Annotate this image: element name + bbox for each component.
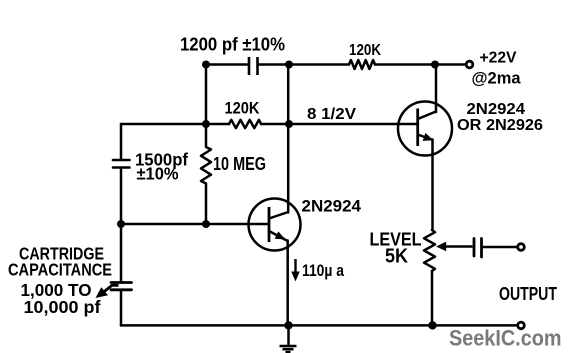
junction node C left (121,224) bbox=[117, 220, 125, 228]
svg-text:OR 2N2926: OR 2N2926 bbox=[457, 117, 543, 134]
svg-text:2N2924: 2N2924 bbox=[467, 101, 526, 118]
svg-text:10 MEG: 10 MEG bbox=[213, 153, 266, 174]
wire ground bus bottom bbox=[121, 324, 517, 327]
svg-text:5K: 5K bbox=[385, 245, 408, 268]
capacitor cartridge plates bbox=[111, 283, 132, 290]
wire Q2 emitter vertical bbox=[431, 140, 434, 231]
svg-text:2N2924: 2N2924 bbox=[302, 198, 362, 216]
svg-text:8 1/2V: 8 1/2V bbox=[307, 106, 356, 123]
pot wiper arrow bbox=[436, 242, 473, 252]
wire coupling cap to output terminal bbox=[482, 246, 518, 249]
terminal output bottom open circle bbox=[518, 322, 525, 329]
wire pot bottom to ground bus bbox=[431, 271, 434, 325]
potentiometer LEVEL 5K element bbox=[424, 230, 435, 271]
svg-text:110µ a: 110µ a bbox=[302, 261, 344, 280]
wire 1500pf to node C bbox=[120, 169, 123, 225]
resistor 10 MEG (vertical) bbox=[201, 124, 211, 224]
terminal +22V open circle bbox=[466, 61, 473, 68]
svg-text:120K: 120K bbox=[225, 100, 260, 118]
wire Q2 collector vertical bbox=[435, 65, 438, 113]
junction node B top (289,64.5) bbox=[285, 61, 293, 69]
svg-text:120K: 120K bbox=[349, 42, 382, 59]
ground symbol bbox=[280, 346, 297, 352]
svg-text:OUTPUT: OUTPUT bbox=[499, 283, 558, 304]
ground stub wire bbox=[287, 325, 290, 344]
svg-text:CAPACITANCE: CAPACITANCE bbox=[8, 260, 112, 280]
wire top feedback right segment bbox=[259, 63, 290, 66]
svg-text:1200 pf ±10%: 1200 pf ±10% bbox=[180, 35, 285, 55]
capacitor 1200pf plates bbox=[249, 57, 258, 75]
junction ground bus Q1 emitter (288.5,325.4) bbox=[284, 321, 292, 329]
junction node B (289,124) bbox=[285, 120, 293, 128]
wire left branch lower (node C to cartridge cap) bbox=[120, 224, 123, 281]
resistor 120K (feedback, horizontal) bbox=[229, 120, 261, 128]
junction 10MEG top (206,124) bbox=[202, 120, 210, 128]
junction ground bus pot (432.5,325.4) bbox=[428, 321, 436, 329]
transistor Q2 2N2924/2N2926 (upper right) bbox=[398, 102, 452, 156]
svg-text:±10%: ±10% bbox=[137, 164, 179, 184]
wire top feedback left segment bbox=[206, 63, 248, 66]
svg-text:10,000 pf: 10,000 pf bbox=[24, 297, 101, 317]
arrow 110ua current bbox=[291, 259, 299, 282]
wire Q1 emitter vertical bbox=[286, 241, 289, 326]
arrow cartridge capacitance pointer bbox=[96, 285, 119, 298]
wire node B to Q2 base bbox=[261, 123, 417, 126]
capacitor 1500pf plates bbox=[113, 160, 130, 168]
transistor Q1 2N2924 (middle) bbox=[249, 199, 301, 251]
resistor 120K (supply, horizontal) bbox=[349, 60, 375, 69]
terminal output top open circle bbox=[518, 244, 525, 251]
svg-text:@2ma: @2ma bbox=[472, 69, 522, 88]
junction node C 10MEG bottom (206,224) bbox=[202, 220, 210, 228]
junction feedback cap left (206,64.5) bbox=[202, 61, 210, 69]
wire collector net vertical x289 bbox=[287, 65, 290, 213]
wire left branch upper (node A down to 1500pf) bbox=[120, 124, 123, 159]
wire cartridge cap to ground bus bbox=[120, 291, 123, 326]
svg-text:+22V: +22V bbox=[480, 50, 517, 67]
capacitor output coupling plates bbox=[474, 239, 482, 258]
svg-text:SeekIC.com: SeekIC.com bbox=[449, 326, 562, 351]
wire node C row to Q1 base bbox=[121, 223, 268, 226]
junction supply/collector (435,64.5) bbox=[431, 61, 439, 69]
wire top supply row bbox=[289, 63, 466, 66]
wire main node row left (node A to 120K) bbox=[121, 123, 229, 126]
wire vertical from feedback cap down to node B bbox=[205, 65, 208, 125]
